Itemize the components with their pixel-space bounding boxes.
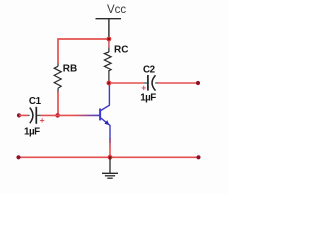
junction at base node: [55, 113, 60, 118]
bottom-right terminal node: [196, 155, 200, 159]
ground: [102, 157, 118, 178]
svg-text:+: +: [141, 82, 146, 92]
svg-text:1µF: 1µF: [24, 127, 40, 138]
emitter: [101, 118, 110, 143]
output terminal node: [196, 81, 200, 85]
svg-text:+: +: [40, 115, 45, 125]
resistor RB top stub: [57, 64, 59, 67]
wire RB bottom to base node: [57, 92, 59, 116]
bottom rail wire: [19, 156, 199, 158]
capacitor C1: [28, 107, 41, 124]
wire Vcc rail to RB (net VCC): [58, 39, 109, 64]
resistor RB bottom stub: [57, 88, 59, 91]
capacitor C2: [144, 75, 158, 91]
junction at emitter / rail: [108, 155, 113, 160]
wire emitter to ground rail: [109, 138, 111, 157]
resistor RB: [54, 66, 61, 88]
emitter arrow: [104, 120, 109, 125]
svg-text:Vcc: Vcc: [107, 4, 126, 16]
resistor RC top lead: [108, 40, 110, 48]
junction at collector / RC bottom: [107, 81, 112, 86]
base bar: [99, 109, 101, 121]
resistor RC: [104, 52, 111, 71]
wire input terminal to C1: [19, 114, 28, 116]
bottom-left terminal node: [16, 155, 20, 159]
svg-text:1µF: 1µF: [140, 93, 156, 104]
svg-text:RC: RC: [114, 44, 128, 55]
wire collector node to C2: [110, 82, 144, 84]
wire C1 to base: [41, 114, 100, 116]
wire C2 to output terminal: [158, 82, 198, 84]
transistor Q1: [100, 84, 110, 143]
Vcc power symbol: [96, 19, 122, 39]
svg-text:C1: C1: [29, 96, 42, 107]
svg-text:C2: C2: [143, 65, 156, 76]
junction at Vcc / RC top: [107, 37, 112, 42]
input terminal node: [17, 113, 21, 117]
svg-text:RB: RB: [63, 63, 77, 74]
resistor RC bottom lead: [108, 71, 110, 82]
collector: [101, 84, 110, 111]
